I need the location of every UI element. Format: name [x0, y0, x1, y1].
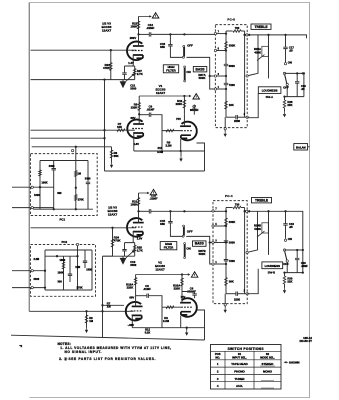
svg-text:12AX7: 12AX7: [156, 91, 166, 95]
svg-text:270K: 270K: [78, 197, 84, 201]
svg-text:7: 7: [218, 31, 220, 33]
svg-text:270K: 270K: [77, 285, 83, 289]
svg-text:R11: R11: [158, 146, 163, 150]
svg-text:3300: 3300: [130, 263, 137, 267]
svg-text:2.2M: 2.2M: [34, 257, 40, 261]
svg-text:500K: 500K: [199, 252, 207, 256]
svg-text:22K: 22K: [287, 280, 292, 284]
svg-text:SW-B: SW-B: [268, 270, 275, 274]
svg-text:330K: 330K: [229, 220, 236, 224]
svg-text:2.7K: 2.7K: [137, 248, 143, 252]
svg-text:12AX7: 12AX7: [155, 267, 165, 271]
svg-text:220K: 220K: [174, 286, 181, 290]
svg-text:.22MF: .22MF: [146, 26, 154, 30]
svg-text:INPUT SEL.: INPUT SEL.: [232, 355, 247, 359]
svg-text:12AX7: 12AX7: [108, 213, 118, 217]
svg-text:.22MF: .22MF: [149, 197, 157, 201]
svg-text:2.2M: 2.2M: [165, 143, 172, 147]
svg-text:2: 2: [244, 114, 246, 116]
svg-text:NO.: NO.: [215, 355, 220, 359]
svg-text:.02MF: .02MF: [301, 265, 308, 268]
svg-text:760: 760: [235, 26, 240, 30]
svg-text:TREBLE: TREBLE: [255, 198, 269, 202]
svg-text:5.2K: 5.2K: [145, 330, 151, 334]
svg-text:220K: 220K: [127, 285, 134, 289]
svg-text:3: 3: [215, 240, 217, 242]
svg-text:10K: 10K: [117, 125, 122, 129]
svg-text:400K: 400K: [254, 51, 261, 55]
svg-text:2.7K: 2.7K: [137, 72, 143, 76]
svg-text:3: 3: [218, 74, 220, 76]
svg-text:OFF: OFF: [283, 262, 289, 266]
svg-text:100K: 100K: [42, 181, 48, 185]
svg-text:3300: 3300: [85, 176, 91, 180]
svg-text:LOUDNESS: LOUDNESS: [262, 89, 278, 93]
svg-text:ON: ON: [288, 60, 292, 64]
svg-text:390: 390: [58, 280, 63, 284]
svg-text:500K: 500K: [254, 227, 261, 231]
svg-text:2.2M: 2.2M: [163, 319, 170, 323]
svg-text:1.8V: 1.8V: [134, 142, 140, 146]
svg-text:150K: 150K: [130, 24, 138, 28]
svg-text:FILTER: FILTER: [166, 68, 175, 72]
svg-text:75V: 75V: [176, 117, 181, 121]
svg-text:.01MF: .01MF: [143, 287, 151, 291]
svg-text:HIGH: HIGH: [165, 242, 172, 246]
svg-text:NOTES:: NOTES:: [58, 342, 71, 346]
svg-text:3300: 3300: [130, 87, 137, 91]
svg-text:PC-4: PC-4: [225, 194, 233, 198]
svg-text:PC1: PC1: [60, 218, 66, 222]
svg-text:6800: 6800: [229, 64, 236, 68]
svg-text:1.4V: 1.4V: [128, 61, 134, 65]
svg-text:BALAN: BALAN: [296, 145, 306, 149]
svg-text:150K: 150K: [130, 202, 138, 206]
svg-text:.05: .05: [289, 225, 293, 229]
svg-text:500K: 500K: [199, 76, 207, 80]
svg-text:1M: 1M: [77, 172, 81, 176]
svg-text:SWITCH POSITIONS: SWITCH POSITIONS: [228, 347, 265, 351]
svg-text:.01MF: .01MF: [147, 108, 155, 112]
svg-text:AUX.: AUX.: [236, 384, 243, 388]
svg-text:3.3M: 3.3M: [157, 150, 164, 154]
svg-text:SHOWN: SHOWN: [289, 361, 300, 365]
svg-text:DD-80 2Y: DD-80 2Y: [300, 339, 313, 343]
svg-text:470K: 470K: [103, 66, 111, 70]
svg-text:7: 7: [215, 209, 217, 211]
svg-text:1.8V: 1.8V: [137, 236, 143, 240]
svg-text:ON: ON: [288, 237, 292, 241]
svg-text:TAPE HEAD: TAPE HEAD: [231, 362, 248, 366]
svg-text:R24B: R24B: [254, 224, 261, 228]
svg-text:22K: 22K: [287, 103, 292, 107]
svg-text:2200: 2200: [234, 297, 241, 301]
svg-text:12M: 12M: [75, 265, 80, 269]
svg-text:220K: 220K: [176, 102, 183, 106]
svg-text:68V: 68V: [129, 295, 134, 299]
svg-text:5: 5: [218, 48, 220, 50]
svg-text:1: 1: [215, 262, 217, 264]
svg-text:1800: 1800: [229, 241, 236, 245]
svg-text:680: 680: [160, 45, 165, 49]
svg-text:470K: 470K: [114, 239, 122, 243]
svg-text:3300: 3300: [34, 277, 40, 281]
svg-text:680: 680: [160, 222, 165, 226]
svg-text:FILTER: FILTER: [164, 245, 173, 249]
svg-text:TUNER: TUNER: [235, 377, 246, 381]
svg-text:330K: 330K: [229, 44, 236, 48]
svg-text:PHONO: PHONO: [234, 370, 245, 374]
svg-text:2: 2: [244, 291, 246, 293]
svg-text:1: 1: [218, 87, 220, 89]
svg-text:1800: 1800: [86, 267, 92, 271]
svg-text:MONO: MONO: [263, 370, 273, 374]
svg-text:36K: 36K: [229, 279, 234, 283]
svg-text:MODE SEL.: MODE SEL.: [260, 355, 275, 359]
svg-text:-.06V: -.06V: [128, 323, 135, 327]
svg-text:ON: ON: [186, 247, 190, 251]
svg-text:OFF: OFF: [187, 44, 193, 48]
svg-text:1M: 1M: [89, 319, 94, 323]
svg-text:PC-5: PC-5: [227, 18, 235, 22]
svg-text:7200: 7200: [229, 259, 236, 263]
svg-text:220K: 220K: [131, 105, 138, 109]
svg-text:*2: *2: [20, 344, 23, 348]
svg-text:390: 390: [57, 191, 62, 195]
svg-text:PC2: PC2: [62, 240, 68, 244]
svg-text:ON: ON: [186, 70, 190, 74]
svg-text:NO SIGNAL INPUT.: NO SIGNAL INPUT.: [65, 350, 102, 354]
svg-text:280V: 280V: [130, 36, 137, 40]
svg-text:.05: .05: [289, 49, 293, 53]
svg-text:TREBLE: TREBLE: [255, 25, 269, 29]
svg-text:OFF: OFF: [283, 85, 289, 89]
svg-text:100K: 100K: [58, 271, 64, 275]
svg-text:16K: 16K: [229, 103, 234, 107]
svg-text:R24A: R24A: [254, 47, 261, 51]
svg-text:5: 5: [215, 224, 217, 226]
svg-text:BASS: BASS: [196, 67, 206, 71]
svg-text:.05: .05: [301, 87, 305, 91]
svg-text:730: 730: [235, 203, 240, 207]
svg-text:1800: 1800: [34, 193, 40, 197]
svg-text:1800: 1800: [60, 258, 66, 262]
svg-text:68K: 68K: [114, 154, 119, 158]
svg-text:BASS: BASS: [195, 242, 205, 246]
svg-text:2.: 2.: [59, 357, 62, 361]
svg-text:12AX7: 12AX7: [102, 29, 112, 33]
svg-text:2200: 2200: [234, 119, 241, 123]
svg-text:3300: 3300: [49, 164, 55, 168]
svg-text:SW-A: SW-A: [266, 95, 273, 99]
svg-text:OFF: OFF: [187, 230, 193, 234]
svg-text:STEREO: STEREO: [262, 362, 275, 366]
svg-text:LOUDNESS: LOUDNESS: [265, 264, 280, 268]
svg-text:SEE PARTS LIST FOR RESISTOR VA: SEE PARTS LIST FOR RESISTOR VALUES.: [69, 357, 157, 361]
svg-text:7200: 7200: [229, 83, 236, 87]
